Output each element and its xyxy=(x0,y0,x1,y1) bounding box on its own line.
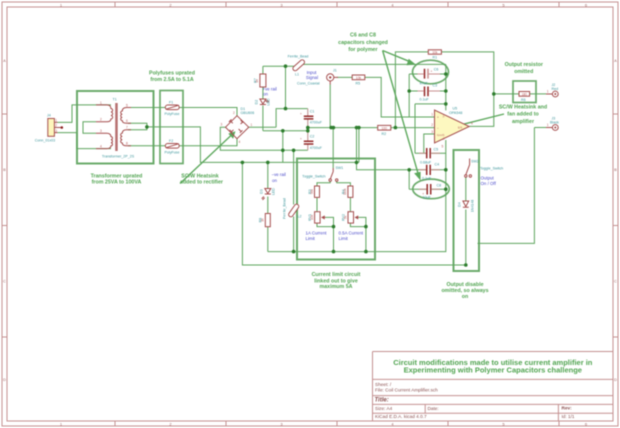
svg-text:10k: 10k xyxy=(356,76,362,80)
svg-text:Ferrite_Bead: Ferrite_Bead xyxy=(283,198,287,219)
svg-text:SC/W Heatsink and: SC/W Heatsink and xyxy=(499,105,547,111)
svg-text:PolyFuse: PolyFuse xyxy=(165,112,180,116)
svg-text:3: 3 xyxy=(431,130,433,134)
svg-text:F1: F1 xyxy=(169,101,173,105)
svg-text:T1: T1 xyxy=(113,97,117,101)
svg-text:C: C xyxy=(614,279,617,284)
svg-text:0.68uF: 0.68uF xyxy=(420,160,432,164)
svg-text:D4: D4 xyxy=(457,202,461,207)
svg-text:+: + xyxy=(300,112,302,116)
svg-text:R6: R6 xyxy=(521,98,526,102)
svg-text:L1: L1 xyxy=(295,73,299,77)
svg-text:Black: Black xyxy=(550,121,559,125)
svg-text:Conn_01x03: Conn_01x03 xyxy=(35,139,55,143)
svg-text:4700uF: 4700uF xyxy=(310,121,323,125)
svg-text:capacitors changed: capacitors changed xyxy=(338,40,388,46)
svg-text:R3: R3 xyxy=(308,189,312,194)
svg-text:C6 and C8: C6 and C8 xyxy=(350,33,376,39)
svg-text:C6: C6 xyxy=(434,68,439,72)
svg-text:OPA548: OPA548 xyxy=(449,111,462,115)
svg-text:amplifier: amplifier xyxy=(512,119,534,125)
svg-text:1: 1 xyxy=(547,89,549,93)
svg-text:10k: 10k xyxy=(432,51,438,55)
svg-text:+: + xyxy=(431,69,433,73)
svg-text:Ferrite_Bead: Ferrite_Bead xyxy=(288,55,309,59)
svg-text:added to rectifier: added to rectifier xyxy=(180,179,223,185)
svg-text:D3: D3 xyxy=(260,189,264,194)
svg-text:C: C xyxy=(3,279,6,284)
svg-text:0.1uF: 0.1uF xyxy=(420,98,430,102)
svg-text:C2: C2 xyxy=(310,134,315,138)
svg-text:B: B xyxy=(3,167,6,172)
svg-text:Polyfuses uprated: Polyfuses uprated xyxy=(149,71,195,77)
svg-text:on: on xyxy=(272,178,277,183)
svg-text:On / Off: On / Off xyxy=(481,181,497,186)
svg-text:3: 3 xyxy=(221,122,223,126)
svg-text:6: 6 xyxy=(126,119,128,123)
svg-text:Sheet: /: Sheet: / xyxy=(375,382,392,387)
svg-text:Red: Red xyxy=(552,87,559,91)
svg-text:D: D xyxy=(3,377,6,382)
svg-text:C4: C4 xyxy=(435,163,440,167)
svg-text:2: 2 xyxy=(55,124,57,128)
svg-text:5: 5 xyxy=(442,144,444,148)
svg-text:4700uF: 4700uF xyxy=(310,146,323,150)
svg-text:D2: D2 xyxy=(255,100,259,105)
svg-text:2: 2 xyxy=(233,111,235,115)
svg-text:F2: F2 xyxy=(169,139,173,143)
svg-text:4: 4 xyxy=(239,140,241,144)
svg-text:C3: C3 xyxy=(433,83,438,87)
svg-text:5k: 5k xyxy=(343,215,347,219)
svg-text:LED: LED xyxy=(267,98,271,105)
svg-text:3: 3 xyxy=(100,129,102,133)
svg-text:V+: V+ xyxy=(442,114,446,118)
svg-text:4: 4 xyxy=(471,122,473,126)
svg-text:File: Coil Current Amplifier.s: File: Coil Current Amplifier.sch xyxy=(375,388,438,393)
svg-text:100: 100 xyxy=(382,126,388,130)
svg-text:1: 1 xyxy=(251,123,253,127)
svg-text:Rev:: Rev: xyxy=(562,406,573,411)
svg-text:on: on xyxy=(462,294,468,300)
svg-text:GBU606: GBU606 xyxy=(241,111,255,115)
svg-text:0.5A Current: 0.5A Current xyxy=(339,231,364,236)
svg-text:0.1uF: 0.1uF xyxy=(422,177,432,181)
svg-text:U5: U5 xyxy=(453,106,458,110)
svg-text:LED: LED xyxy=(272,188,276,195)
svg-text:1: 1 xyxy=(55,119,57,123)
svg-text:+: + xyxy=(300,137,302,141)
svg-text:47uF: 47uF xyxy=(420,81,429,85)
svg-text:−: − xyxy=(437,127,439,131)
svg-text:PolyFuse: PolyFuse xyxy=(165,150,180,154)
svg-text:R8: R8 xyxy=(259,218,263,223)
svg-text:Transformer_2P_2S: Transformer_2P_2S xyxy=(102,155,135,159)
svg-text:180: 180 xyxy=(522,92,528,96)
svg-text:Output resistor: Output resistor xyxy=(505,62,543,68)
svg-text:R2: R2 xyxy=(382,132,387,136)
svg-text:KiCad E.D.A. kicad 4.0.7: KiCad E.D.A. kicad 4.0.7 xyxy=(375,414,427,419)
svg-text:Toggle_Switch: Toggle_Switch xyxy=(302,175,325,179)
svg-text:maximum 5A: maximum 5A xyxy=(320,284,353,290)
svg-text:L2: L2 xyxy=(298,215,302,219)
svg-text:A: A xyxy=(3,58,6,63)
svg-text:Id: 1/1: Id: 1/1 xyxy=(562,414,575,419)
svg-text:SW2: SW2 xyxy=(471,159,479,163)
svg-text:fan added to: fan added to xyxy=(507,112,539,118)
svg-text:for polymer: for polymer xyxy=(348,47,377,53)
svg-text:7: 7 xyxy=(126,126,128,130)
svg-text:from 25VA to 100VA: from 25VA to 100VA xyxy=(92,179,142,185)
svg-text:D: D xyxy=(614,377,617,382)
svg-text:2: 2 xyxy=(100,118,102,122)
svg-text:E/S: E/S xyxy=(458,126,462,130)
svg-text:5: 5 xyxy=(126,103,128,107)
svg-text:Limit: Limit xyxy=(306,236,316,241)
svg-text:from 2.5A to 5.1A: from 2.5A to 5.1A xyxy=(150,77,194,83)
svg-text:J1: J1 xyxy=(333,68,337,72)
svg-text:1: 1 xyxy=(100,101,102,105)
svg-text:C1: C1 xyxy=(310,110,315,114)
svg-text:J4: J4 xyxy=(47,114,51,118)
svg-text:SW1: SW1 xyxy=(336,166,344,170)
svg-text:1: 1 xyxy=(547,123,549,127)
svg-text:1: 1 xyxy=(431,112,433,116)
svg-text:3: 3 xyxy=(55,129,57,133)
svg-text:1A Current: 1A Current xyxy=(306,231,328,236)
svg-text:+: + xyxy=(437,116,439,120)
svg-text:C8: C8 xyxy=(437,184,442,188)
svg-text:Output: Output xyxy=(481,176,495,181)
svg-text:omitted: omitted xyxy=(514,69,533,75)
svg-text:−ve rail: −ve rail xyxy=(272,172,286,177)
svg-text:Conn_Coaxial: Conn_Coaxial xyxy=(297,81,320,85)
svg-text:C5: C5 xyxy=(434,148,439,152)
svg-text:Limit: Limit xyxy=(339,236,349,241)
svg-text:R4: R4 xyxy=(341,189,345,194)
svg-text:Experimenting with Polymer Cap: Experimenting with Polymer Capacitors ch… xyxy=(404,366,582,375)
svg-text:Current limit circuit: Current limit circuit xyxy=(312,272,361,278)
svg-text:10uF: 10uF xyxy=(423,196,432,200)
svg-text:8: 8 xyxy=(126,142,128,146)
svg-text:2: 2 xyxy=(431,123,433,127)
svg-text:1N4148: 1N4148 xyxy=(470,200,474,213)
svg-text:B: B xyxy=(614,167,617,172)
svg-text:Signal: Signal xyxy=(306,75,318,80)
svg-text:Size: A4: Size: A4 xyxy=(375,406,393,411)
svg-text:R7: R7 xyxy=(254,78,258,83)
svg-text:Toggle_Switch: Toggle_Switch xyxy=(480,167,503,171)
svg-text:R5: R5 xyxy=(356,81,361,85)
svg-text:Title:: Title: xyxy=(375,398,389,404)
svg-text:A: A xyxy=(614,58,617,63)
svg-text:4: 4 xyxy=(100,145,102,149)
svg-text:R1: R1 xyxy=(433,56,438,60)
svg-text:10k: 10k xyxy=(310,214,314,220)
svg-text:Date:: Date: xyxy=(428,406,439,411)
svg-text:V−: V− xyxy=(442,136,446,140)
svg-text:on: on xyxy=(263,91,268,96)
svg-text:ILim/S: ILim/S xyxy=(437,133,445,137)
